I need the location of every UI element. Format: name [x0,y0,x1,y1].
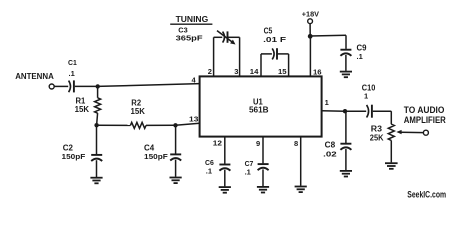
svg-text:150pF: 150pF [144,152,168,161]
svg-text:.01 F: .01 F [263,35,287,44]
svg-text:C1: C1 [68,58,77,67]
svg-text:C6: C6 [205,158,214,167]
svg-text:365pF: 365pF [176,33,204,42]
svg-text:16: 16 [313,68,322,77]
svg-text:9: 9 [256,139,260,148]
svg-text:AMPLIFIER: AMPLIFIER [404,115,446,125]
svg-text:15K: 15K [75,105,90,114]
svg-text:R3: R3 [371,125,383,134]
svg-text:.1: .1 [357,52,363,61]
svg-text:1: 1 [325,98,329,107]
svg-text:.1: .1 [245,168,251,177]
svg-text:14: 14 [250,67,259,76]
svg-text:13: 13 [189,115,198,124]
svg-text:R2: R2 [131,98,141,107]
svg-text:.1: .1 [206,167,212,176]
svg-text:ANTENNA: ANTENNA [15,72,54,81]
svg-text:1: 1 [364,92,368,101]
svg-text:TUNING: TUNING [176,14,209,24]
svg-text:150pF: 150pF [62,152,86,161]
svg-text:C5: C5 [264,27,273,36]
svg-text:8: 8 [294,139,298,148]
svg-text:TO AUDIO: TO AUDIO [404,105,445,115]
svg-text:+18V: +18V [302,10,319,19]
svg-text:3: 3 [234,67,238,76]
svg-text:15: 15 [278,67,287,76]
svg-text:2: 2 [208,67,212,76]
svg-text:SeekIC.com: SeekIC.com [407,190,446,200]
svg-text:C7: C7 [245,159,254,168]
svg-text:12: 12 [213,138,222,147]
svg-text:561B: 561B [249,106,269,115]
svg-text:C8: C8 [325,141,336,150]
svg-text:.1: .1 [69,69,75,78]
svg-text:.02: .02 [323,150,337,159]
svg-text:15K: 15K [131,107,146,116]
svg-text:25K: 25K [370,134,384,143]
